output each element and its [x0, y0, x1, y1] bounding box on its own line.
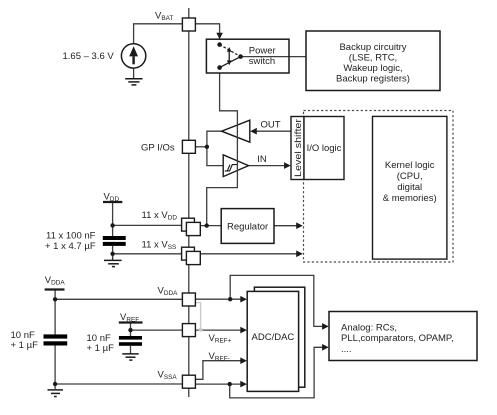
- wire power switch bottom to buffer supply bend: [220, 73, 238, 111]
- backup circuitry box: [306, 31, 440, 91]
- I/O logic box: [304, 117, 344, 180]
- wire VSSA ground stem: [54, 384, 56, 389]
- arrowhead IN into level shifter: [284, 162, 291, 169]
- power switch lever: [220, 57, 241, 68]
- wire VSSA bottom wrap to analog block: [230, 347, 324, 398]
- arrowhead regulator into kernel domain: [296, 222, 303, 229]
- svg-text:11 x 100 nF: 11 x 100 nF: [46, 230, 96, 241]
- svg-text:Wakeup logic,: Wakeup logic,: [343, 63, 402, 74]
- wire VREF bar stem: [130, 323, 132, 337]
- power switch dashed throw: [220, 45, 241, 57]
- voltage source arrow: [129, 46, 138, 64]
- pin 11xVSS back: [182, 247, 195, 260]
- power switch toggle arrow: [227, 47, 232, 65]
- ADC/DAC front box: [247, 291, 298, 391]
- pin VREF: [182, 324, 195, 337]
- voltage source V1: [121, 44, 145, 68]
- wire VSS ground stem: [112, 254, 114, 260]
- regulator box: [221, 209, 274, 244]
- ADC/DAC back box: [254, 287, 304, 387]
- pin 11xVDD back: [182, 218, 195, 231]
- svg-text:+ 1 x 4.7 µF: + 1 x 4.7 µF: [45, 241, 96, 252]
- wire VDDA bar stem: [54, 290, 56, 335]
- arrowhead VREF- into ADC: [240, 357, 247, 364]
- wire regulator to kernel domain: [274, 225, 297, 227]
- arrowhead VSSA into ADC: [240, 381, 247, 388]
- junction GPIO: [205, 145, 209, 149]
- arrowhead into power switch: [216, 33, 223, 39]
- wire VDD bar stem: [112, 202, 114, 236]
- pin VBAT: [182, 18, 195, 31]
- wire VDDA cap lower stem: [54, 346, 56, 385]
- junction VREF: [128, 328, 132, 332]
- arrowhead VDDA into ADC: [240, 296, 247, 303]
- junction VDD cap bottom: [110, 252, 114, 256]
- gray junction dot on VREF+ line: [199, 328, 203, 332]
- svg-text:switch: switch: [249, 56, 275, 67]
- wire buffer supply through triangles to VDD net: [207, 110, 238, 225]
- wire VSS pin to IO domain: [200, 253, 297, 255]
- capacitor C VDDA: [44, 334, 68, 345]
- wire VSS cap to pin: [113, 253, 182, 255]
- svg-text:....: ....: [341, 344, 352, 355]
- svg-text:Analog: RCs,: Analog: RCs,: [341, 323, 397, 334]
- power switch contacts: [217, 42, 243, 70]
- wire VBAT from source to pin: [134, 24, 183, 44]
- svg-text:GP I/Os: GP I/Os: [141, 143, 175, 154]
- junction VSSA wrap: [228, 382, 232, 386]
- svg-text:Backup registers): Backup registers): [336, 74, 410, 85]
- wire VREF cap lower stem: [130, 346, 132, 354]
- kernel logic box: [373, 116, 447, 259]
- ground under source: [125, 79, 142, 85]
- wire junction up to OUT buffer tip: [207, 131, 222, 147]
- ground VSSA cap: [48, 390, 64, 397]
- arrowhead top wrap into analog block: [322, 323, 329, 330]
- wire IN buffer output to level shifter: [249, 165, 286, 167]
- wire VREF cap to pin: [131, 329, 183, 331]
- arrowhead VREF+ into ADC: [240, 327, 247, 334]
- svg-text:+ 1 µF: + 1 µF: [87, 343, 115, 354]
- pin VDDA: [182, 293, 195, 306]
- wire power switch output to backup box: [241, 56, 306, 58]
- junction VDDA: [53, 297, 57, 301]
- pin VSSA: [182, 375, 195, 388]
- svg-text:(LSE, RTC,: (LSE, RTC,: [349, 53, 397, 64]
- svg-text:ADC/DAC: ADC/DAC: [252, 332, 295, 343]
- junction VDDA cap bottom: [53, 382, 57, 386]
- svg-text:(CPU,: (CPU,: [397, 171, 423, 182]
- VDDA supply bar: [45, 288, 65, 290]
- svg-text:digital: digital: [397, 182, 422, 193]
- wire VDD cap lower stem to VSS: [112, 246, 114, 260]
- wire VDD pin to regulator: [200, 225, 221, 227]
- junction VDD regulator: [205, 223, 209, 227]
- svg-text:IN: IN: [257, 154, 267, 165]
- wire VDDA cap to pin: [55, 298, 182, 300]
- arrowhead VSS into IO domain: [296, 251, 303, 258]
- wire VSSA pin to ADC: [196, 383, 242, 385]
- svg-text:Kernel logic: Kernel logic: [385, 160, 435, 171]
- dashed core domain box: [304, 111, 454, 263]
- pin 11xVSS front: [186, 251, 200, 264]
- svg-text:& memories): & memories): [383, 193, 437, 204]
- arrowhead bottom wrap into analog block: [322, 344, 329, 351]
- wire VBAT pin to power switch: [196, 24, 220, 33]
- wire VDD cap to pin: [113, 224, 182, 226]
- wire GPIO pin to junction: [195, 146, 207, 148]
- wire VDDA top wrap to analog block: [230, 275, 324, 326]
- analog block box: [329, 312, 477, 361]
- junction VDDA wrap: [228, 297, 232, 301]
- capacitor C VDD: [103, 236, 126, 246]
- gray obsolete wire VDDA to VREF+: [196, 303, 201, 330]
- pin GPIO: [182, 140, 195, 153]
- svg-text:1.65 – 3.6 V: 1.65 – 3.6 V: [63, 51, 115, 62]
- wire VDDA pin to ADC: [196, 298, 242, 300]
- svg-text:PLL,comparators, OPAMP,: PLL,comparators, OPAMP,: [341, 333, 454, 344]
- svg-text:Level shifter: Level shifter: [293, 119, 303, 177]
- junction VDD cap top: [110, 223, 114, 227]
- VDD supply bar: [103, 201, 122, 203]
- svg-text:OUT: OUT: [261, 120, 281, 131]
- wire main pin rail: [188, 8, 190, 397]
- wire junction down to IN buffer input: [207, 147, 223, 166]
- schmitt hysteresis symbol: [225, 165, 237, 171]
- wire OUT line from level shifter to OUT buffer: [254, 130, 291, 132]
- svg-text:I/O logic: I/O logic: [307, 143, 342, 154]
- wire VREF pin to ADC: [196, 329, 242, 331]
- IN buffer (schmitt): [223, 155, 248, 177]
- power switch box: [206, 39, 289, 73]
- svg-text:Backup circuitry: Backup circuitry: [339, 42, 406, 53]
- svg-text:Power: Power: [249, 45, 276, 56]
- level shifter box: [291, 117, 304, 180]
- wire VBAT source ground stem: [133, 68, 135, 79]
- svg-text:Regulator: Regulator: [227, 221, 268, 232]
- ground VREF cap: [122, 354, 138, 360]
- VREF supply bar: [119, 321, 143, 323]
- wire VSSA cap to pin: [55, 383, 182, 385]
- OUT buffer: [222, 120, 250, 142]
- arrowhead OUT into buffer: [250, 128, 257, 135]
- svg-text:+ 1 µF: + 1 µF: [11, 340, 39, 351]
- ground VSS cap: [104, 260, 122, 266]
- arrowheads: [216, 33, 328, 388]
- pin 11xVDD front: [186, 222, 200, 235]
- capacitor C VREF: [119, 336, 142, 346]
- wire VREF- from VSSA pin to ADC: [196, 361, 242, 380]
